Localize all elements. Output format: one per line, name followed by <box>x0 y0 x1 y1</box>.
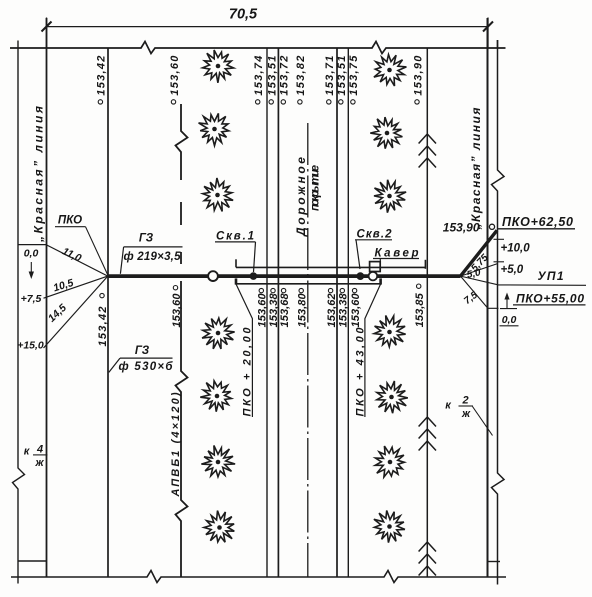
svg-text:ГЗ: ГЗ <box>139 232 154 244</box>
bush symbol at (387,133) <box>370 117 402 149</box>
svg-text:ж: ж <box>34 457 44 469</box>
svg-text:+7,5: +7,5 <box>21 293 42 305</box>
dimension tick right <box>483 22 493 32</box>
kaver circle <box>369 272 378 281</box>
svg-text:2: 2 <box>461 395 468 407</box>
svg-text:153,71: 153,71 <box>324 56 336 96</box>
left bottom connector <box>18 560 47 562</box>
svg-text:153,51: 153,51 <box>267 56 279 96</box>
svg-text:+5,0: +5,0 <box>501 264 524 276</box>
elevation 153,74 top at x258 <box>256 100 260 104</box>
svg-text:153,60: 153,60 <box>257 293 269 328</box>
connector at 0,0 level <box>18 244 47 246</box>
pipeline bend diagonal <box>461 230 498 276</box>
svg-text:УП1: УП1 <box>538 269 564 283</box>
road edge right outer <box>347 48 349 577</box>
bend fan line 5,75 <box>461 264 498 277</box>
boundary line x108 <box>107 48 109 577</box>
svg-text:Скв.2: Скв.2 <box>357 229 393 241</box>
svg-text:153,42: 153,42 <box>96 56 108 96</box>
svg-text:153,68: 153,68 <box>279 293 291 328</box>
svg-text:ПКО: ПКО <box>58 214 82 226</box>
bush symbol at (390,196) <box>374 180 406 213</box>
road edge left outer <box>266 48 268 577</box>
elevation 153,42 top at x100 <box>98 100 102 104</box>
elevation 153,42 mid left <box>100 293 104 297</box>
k 2/zh leader <box>473 407 493 436</box>
svg-text:покрытие: покрытие <box>310 164 322 211</box>
dimension line 70,5 <box>47 18 489 49</box>
left red line <box>46 18 48 577</box>
road edge right inner <box>336 48 338 577</box>
cable line APVB with breaks <box>176 104 188 180</box>
svg-text:0,0: 0,0 <box>24 248 39 260</box>
elevation 153,90 top at x417 <box>415 100 419 104</box>
svg-text:4: 4 <box>36 444 43 456</box>
hedge chevron group 1 <box>419 134 436 168</box>
borehole Skv.2 dot <box>356 272 364 280</box>
svg-text:+10,0: +10,0 <box>501 242 531 254</box>
right red line <box>487 18 489 577</box>
elevation 153,85 below pipe x418 <box>417 284 421 288</box>
svg-text:ПКО + 43,00: ПКО + 43,00 <box>354 327 366 417</box>
elevation 153,68 casing at x284 <box>281 288 285 292</box>
svg-text:ф 530×б: ф 530×б <box>119 361 174 373</box>
svg-text:„Красная” линия: „Красная” линия <box>469 108 483 231</box>
svg-text:153,90: 153,90 <box>443 221 480 235</box>
svg-text:70,5: 70,5 <box>229 7 258 23</box>
kaver box <box>370 262 381 272</box>
svg-text:ПКО+62,50: ПКО+62,50 <box>502 215 573 229</box>
open circle on pipe <box>208 271 218 281</box>
elevation 153,60 below pipe x175 <box>173 286 177 290</box>
dimension tick left <box>42 22 52 32</box>
svg-text:153,51: 153,51 <box>336 56 348 96</box>
svg-text:+15,0: +15,0 <box>17 340 44 352</box>
bush symbol at (390,332) <box>374 316 406 347</box>
elevation 153,62 casing at x331 <box>328 288 332 292</box>
bush symbol at (390,70) <box>374 55 407 87</box>
bush symbol at (217,396) <box>200 381 231 412</box>
svg-text:0,0: 0,0 <box>502 314 517 326</box>
elevation 153,60 top at x174 <box>171 100 175 104</box>
svg-text:153,72: 153,72 <box>279 56 291 96</box>
bottom border line <box>11 571 506 583</box>
svg-text:ж: ж <box>461 408 471 420</box>
elevation 153,51 top at x341 <box>339 100 343 104</box>
hedge line x427 <box>426 48 428 577</box>
road edge left inner <box>277 48 279 577</box>
bush symbol at (220,528) <box>204 511 234 543</box>
right bottom connector <box>488 561 501 563</box>
svg-text:153,60: 153,60 <box>350 293 362 328</box>
svg-text:ПКО+55,00: ПКО+55,00 <box>516 292 584 306</box>
bend fan line UP1 <box>461 276 587 285</box>
borehole Skv.1 dot <box>250 272 258 280</box>
bush symbol at (390,526) <box>374 511 405 543</box>
elevation 153,82 top at x300 <box>298 100 302 104</box>
arrow down at 0,0 <box>30 262 32 274</box>
svg-text:153,85: 153,85 <box>414 292 426 327</box>
elevation 153,80 casing at x301 <box>299 288 303 292</box>
bush symbol at (390,462) <box>375 446 404 477</box>
station leader PKO+20,00 <box>236 284 252 417</box>
svg-text:Кавер: Кавер <box>375 248 419 260</box>
svg-text:ф 219×3,5: ф 219×3,5 <box>124 251 182 263</box>
svg-text:ПКО + 20,00: ПКО + 20,00 <box>242 327 254 417</box>
bush symbol at (218,66) <box>203 50 234 83</box>
road axis dash-dot <box>307 123 309 577</box>
fan line 11,0 <box>46 245 108 277</box>
bush symbol at (214,129) <box>199 113 229 145</box>
elevation 153,72 top at x283 <box>281 100 285 104</box>
elevation 153,60 casing at x355 <box>352 288 356 292</box>
elevation 153,51 top at x271 <box>269 100 273 104</box>
bend fan line 7,5 <box>461 276 499 308</box>
svg-text:153,42: 153,42 <box>97 307 109 347</box>
elevation 153,75 top at x353 <box>351 100 355 104</box>
bush symbol at (218,462) <box>201 446 235 477</box>
arrow up to UP1 line <box>506 298 508 309</box>
fan line 10,5 <box>44 276 108 298</box>
svg-text:153,82: 153,82 <box>295 56 307 96</box>
right offset line with breaks <box>492 40 505 585</box>
top border right stub <box>497 40 499 48</box>
station leader PKO+43,00 <box>365 284 381 417</box>
fan line 14,5 <box>44 276 108 348</box>
casing upper line <box>236 266 425 268</box>
elevation 153,71 top at x329 <box>327 100 331 104</box>
svg-text:„Красная” линия: „Красная” линия <box>32 106 46 243</box>
hedge chevron group 2 <box>419 417 436 451</box>
PKO leader <box>86 227 108 275</box>
casing lower line <box>236 283 381 285</box>
svg-text:153,62: 153,62 <box>326 293 338 327</box>
elevation 153,38 casing at x342 <box>340 288 344 292</box>
svg-text:153,60: 153,60 <box>171 293 183 328</box>
hedge chevron group 3 <box>419 542 436 576</box>
top border line <box>10 42 506 54</box>
bush symbol at (218,333) <box>202 318 235 349</box>
elevation 153,60 casing at x261 <box>259 288 263 292</box>
svg-text:153,80: 153,80 <box>296 293 308 328</box>
bush symbol at (392,397) <box>377 381 408 413</box>
svg-text:Скв.1: Скв.1 <box>216 231 254 243</box>
svg-text:153,38: 153,38 <box>338 293 350 328</box>
bush symbol at (218,195) <box>203 178 233 211</box>
main gas pipeline <box>108 274 461 278</box>
svg-text:153,74: 153,74 <box>253 56 265 96</box>
elevation 153,38 casing at x273 <box>271 288 275 292</box>
svg-text:ГЗ: ГЗ <box>135 345 150 357</box>
left fence line with break <box>13 41 25 584</box>
